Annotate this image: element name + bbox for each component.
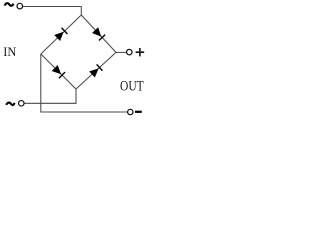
wire AC1 top: from terminal to top node — [23, 7, 81, 16]
wire AC2 bottom: from terminal to bottom node — [24, 89, 76, 103]
label plus — [136, 48, 145, 56]
terminal minus circle — [128, 109, 133, 114]
wire plus output: right node to + terminal — [116, 51, 126, 53]
diode D3 (left node to bottom node) — [52, 65, 65, 78]
AC symbol tilde bottom — [6, 103, 14, 105]
wire bridge arm top-left — [41, 15, 82, 54]
wire bridge arm top-right — [81, 15, 116, 52]
wire bridge arm bottom-right — [76, 52, 116, 89]
terminal plus circle — [127, 49, 133, 55]
bridge rectifier schematic — [0, 0, 150, 120]
diode D2 (top node to right node) — [92, 27, 105, 40]
wire minus output: left node down and right to - terminal — [41, 54, 128, 112]
terminal AC2 circle — [19, 101, 25, 107]
terminal AC1 circle — [17, 3, 23, 9]
label minus — [135, 111, 142, 113]
diode D4 (bottom node to right node) — [89, 64, 102, 77]
diode D1 (left node to top node) — [54, 28, 67, 41]
svg-text:IN: IN — [3, 45, 16, 59]
wire bridge arm bottom-left — [41, 54, 76, 89]
svg-text:OUT: OUT — [120, 79, 144, 95]
AC symbol tilde top — [5, 3, 14, 6]
